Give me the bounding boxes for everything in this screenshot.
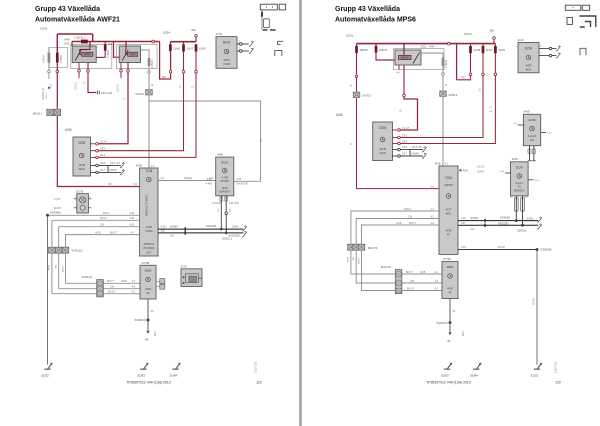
svg-text:AF/B: AF/B	[95, 231, 101, 234]
svg-text:6DA: 6DA	[526, 67, 532, 71]
svg-text:GN: GN	[471, 228, 475, 231]
wire rows into DEM	[66, 282, 141, 284]
svg-text:K2/3S2B: K2/3S2B	[500, 217, 510, 220]
svg-text:W02: W02	[155, 331, 157, 336]
svg-text:K04Ox: K04Ox	[404, 208, 412, 211]
wire TCM 4-10 to splice 53/5008	[458, 249, 537, 251]
svg-text:KE/8: KE/8	[79, 167, 86, 171]
svg-text:AF/B: AF/B	[222, 186, 228, 190]
fuse 11B/06	[56, 53, 59, 63]
relay supply bus A	[72, 41, 160, 43]
svg-text:BN: BN	[56, 265, 58, 268]
relay K2 contact output down to CEM	[127, 63, 129, 70]
svg-text:BCM: BCM	[223, 41, 230, 45]
svg-text:120: 120	[555, 380, 561, 384]
ground 31/32	[44, 364, 51, 369]
svg-text:C5-3: C5-3	[402, 146, 408, 149]
svg-text:BN/YT: BN/YT	[107, 280, 115, 283]
svg-text:S/C002_R: S/C002_R	[41, 88, 45, 100]
svg-text:B4/31 (: B4/31 (	[33, 112, 42, 116]
module 4/28 TCM AW55/TF-80SC	[140, 168, 158, 256]
svg-text:51537338: 51537338	[555, 361, 558, 373]
CAN junction dots right	[515, 219, 518, 222]
svg-text:2/31: 2/31	[421, 45, 427, 49]
svg-text:BK/GY: BK/GY	[358, 257, 360, 264]
svg-text:4F: 4F	[146, 291, 149, 295]
page divider	[299, 0, 302, 426]
svg-text:B4/C73: B4/C73	[368, 246, 378, 250]
CAN junction dots	[220, 228, 223, 231]
module A/56 CEM	[73, 137, 91, 176]
svg-text:4/46: 4/46	[512, 157, 518, 161]
svg-text:TCM: TCM	[145, 169, 152, 173]
splice 53/4019	[147, 319, 150, 322]
4/46 bottom shielded pair to CAN	[515, 198, 519, 211]
svg-text:53/4019: 53/4019	[437, 321, 448, 325]
svg-text:VS/M: VS/M	[223, 62, 231, 66]
svg-text:ECM: ECM	[525, 47, 532, 51]
svg-text:AF/B: AF/B	[396, 222, 402, 225]
svg-text:15/34: 15/34	[464, 32, 472, 36]
svg-text:6DA/6DU: 6DA/6DU	[219, 190, 230, 194]
svg-text:2/1-D2: 2/1-D2	[477, 166, 485, 169]
wire TCM 4-3 nested right	[362, 225, 440, 244]
relay K2 socket outline	[117, 45, 158, 69]
svg-text:TCM: TCM	[445, 176, 452, 180]
svg-text:WH/BK: WH/BK	[170, 226, 178, 229]
svg-text:BK/GY: BK/GY	[62, 265, 64, 272]
svg-text:RD: RD	[108, 183, 112, 186]
svg-text:17-08: 17-08	[54, 198, 61, 201]
svg-text:1 11B/12 2: 1 11B/12 2	[74, 37, 87, 40]
svg-text:4-19: 4-19	[129, 212, 134, 215]
relay K1 socket outline	[71, 45, 112, 69]
svg-text:GN/WH: GN/WH	[411, 154, 419, 156]
svg-text:A/16: A/16	[462, 169, 468, 173]
svg-text:WH/BK: WH/BK	[471, 217, 479, 220]
connector B4/31 (31) two-gang	[47, 109, 54, 115]
svg-text:54/31(1): 54/31(1)	[72, 249, 83, 253]
svg-text:Automatväxellåda AWF21: Automatväxellåda AWF21	[35, 16, 120, 24]
legend connector strip	[260, 4, 277, 10]
svg-text:B4/C19: B4/C19	[381, 265, 391, 269]
wire 54/313 down to TCM pin 4-1	[148, 96, 150, 168]
svg-text:31/84: 31/84	[169, 374, 177, 378]
svg-text:4/66: 4/66	[217, 153, 223, 157]
svg-text:Grupp 43 Växellåda: Grupp 43 Växellåda	[35, 5, 100, 13]
wire 11A/7 down to CEM row2 right	[482, 53, 484, 73]
connector 54/31(4) stack	[97, 280, 104, 297]
CAN terminators	[242, 226, 247, 231]
svg-text:2/32: 2/32	[64, 41, 70, 45]
svg-text:3/3-5: 3/3-5	[412, 147, 418, 149]
svg-text:30+: 30+	[489, 28, 494, 32]
wire 11A/5 down to CEM row3	[195, 52, 197, 71]
svg-text:CEM: CEM	[78, 141, 85, 145]
fuse 11A/5 right	[494, 44, 496, 46]
wire 15-rail drop to fuse 11B/06	[56, 34, 58, 53]
svg-text:4-CyLD: 4-CyLD	[528, 135, 537, 138]
module 4/16 ECM right	[518, 43, 539, 73]
svg-text:C/B: C/B	[408, 215, 412, 218]
svg-text:53/5008: 53/5008	[541, 248, 552, 252]
svg-text:C1-A7: C1-A7	[402, 127, 410, 130]
svg-text:51537338: 51537338	[255, 361, 258, 373]
TCM right row to ECM 4/66	[158, 180, 216, 182]
svg-text:11A/5: 11A/5	[498, 48, 505, 52]
svg-text:C1-A7: C1-A7	[100, 141, 108, 144]
connector 54/313 (3M)	[146, 90, 153, 95]
svg-text:K2/3C2B: K2/3C2B	[206, 225, 216, 228]
svg-text:4-4xB: 4-4xB	[206, 184, 212, 186]
svg-text:2/31: 2/31	[108, 42, 114, 46]
relay K2 coil output stub	[120, 63, 122, 70]
splice 53/4019 right	[449, 321, 452, 324]
svg-text:6/179: 6/179	[76, 189, 84, 193]
svg-text:11A/6: 11A/6	[173, 46, 180, 50]
svg-text:BK/GY: BK/GY	[407, 287, 415, 290]
gray feed to fuse 11B/39 right	[421, 53, 443, 58]
svg-text:C5-2: C5-2	[100, 148, 106, 151]
CEM aux row 2	[98, 171, 121, 173]
solenoid 6/78	[181, 269, 202, 287]
svg-text:53/3S21: 53/3S21	[517, 229, 527, 233]
svg-text:11A/7: 11A/7	[486, 48, 493, 52]
svg-text:54/313: 54/313	[135, 92, 144, 96]
wire DEM ground drop	[147, 299, 149, 319]
legend rounded box	[264, 19, 270, 28]
svg-text:C/B: C/B	[410, 280, 414, 283]
svg-text:C/B: C/B	[110, 286, 114, 289]
svg-text:CEM: CEM	[379, 126, 386, 130]
wire B4/31 down to TCM row	[57, 116, 139, 187]
module 4/65 ECM aux	[523, 114, 540, 145]
svg-text:C5-3: C5-3	[100, 162, 106, 165]
svg-text:2-34 (C3): 2-34 (C3)	[212, 203, 222, 205]
svg-text:HS/2S2B1: HS/2S2B1	[498, 223, 509, 225]
fuse 11B/24 right	[375, 44, 377, 46]
relay socket outline right	[394, 49, 445, 70]
svg-text:A/56: A/56	[65, 128, 72, 132]
svg-text:31/32: 31/32	[41, 374, 49, 378]
wire 53/5006 down to ground 31/32	[47, 217, 49, 365]
legend connector strip right	[565, 5, 581, 10]
relay K1	[72, 46, 96, 63]
inline connector on bus A	[152, 40, 155, 43]
svg-text:GN/4x: GN/4x	[232, 227, 239, 229]
svg-text:4/78: 4/78	[216, 32, 222, 36]
relay K1 coil output stub	[78, 63, 80, 70]
svg-text:AF/B: AF/B	[145, 287, 151, 291]
svg-text:3/3-5: 3/3-5	[110, 163, 116, 165]
4/46 side stubs	[505, 172, 511, 174]
wire bus T-drop to 11A/8 U-turn	[456, 44, 458, 80]
wire branch to ECM frame	[149, 101, 261, 181]
svg-text:AF/B: AF/B	[420, 271, 426, 274]
splice 53/5008	[536, 248, 539, 251]
legend small box	[279, 4, 285, 10]
svg-text:C5-2: C5-2	[402, 134, 408, 137]
module A/56 CEM right	[373, 122, 393, 161]
svg-text:6DR/6DU: 6DR/6DU	[514, 189, 525, 192]
svg-text:4/65: 4/65	[524, 110, 530, 114]
svg-text:GN: GN	[170, 234, 174, 237]
svg-text:11A/5: 11A/5	[199, 46, 206, 50]
ground 31/84	[172, 364, 179, 369]
CEM right aux row 1	[400, 149, 423, 151]
svg-text:BN/YT: BN/YT	[409, 222, 417, 225]
gray feed to fuse 11B/39	[141, 50, 150, 58]
module 4/46 ECM	[511, 162, 529, 196]
svg-text:GN/GR: GN/GR	[497, 246, 505, 249]
wire 11A/7 down to CEM row2	[183, 52, 185, 71]
svg-text:11A/7: 11A/7	[186, 46, 193, 50]
fuse 11B/12 (inline)	[81, 40, 88, 44]
wire 53/5006 to TCM	[49, 214, 140, 216]
svg-text:46: 46	[447, 339, 451, 343]
CAN bus high right	[458, 220, 538, 222]
svg-text:VH4: VH4	[429, 45, 435, 49]
svg-text:3-B: 3-B	[161, 230, 165, 233]
svg-text:3/T08: 3/T08	[142, 261, 150, 265]
svg-text:(TF-80SC): (TF-80SC)	[143, 247, 155, 250]
ECM right pin rows	[539, 48, 549, 50]
svg-text:31/84: 31/84	[470, 374, 478, 378]
CAN inline marks right	[484, 219, 486, 227]
legend bracket lines	[261, 10, 263, 29]
svg-text:C5-7: C5-7	[100, 169, 106, 172]
module 3/T36 DEM right	[442, 262, 458, 299]
module 4/66 ECM	[216, 157, 234, 196]
svg-text:4-13: 4-13	[129, 224, 134, 227]
location bracket icon b	[275, 50, 282, 56]
splice 53/5006	[46, 214, 49, 217]
svg-text:ECM: ECM	[516, 166, 523, 170]
fuse 11A/7 right	[482, 44, 484, 46]
wire 11B/06 down to B4/31	[56, 73, 58, 109]
svg-text:15/31: 15/31	[40, 27, 48, 31]
wire DEM ground drop right	[449, 299, 451, 322]
svg-text:5A/313: 5A/313	[362, 94, 371, 98]
svg-text:B:4-B (C4): B:4-B (C4)	[237, 183, 248, 186]
CAN bus high	[158, 228, 243, 230]
svg-text:4-21: 4-21	[207, 178, 212, 181]
connector B4/C73 3-gang right	[348, 244, 355, 250]
svg-text:VC/8a: VC/8a	[145, 229, 153, 233]
svg-text:4-16: 4-16	[547, 132, 552, 134]
svg-text:4-CyLT: 4-CyLT	[515, 182, 523, 185]
svg-text:6/27: 6/27	[146, 250, 152, 254]
svg-text:TP39297012 V40 (13w) 2013: TP39297012 V40 (13w) 2013	[126, 381, 170, 385]
svg-text:11B/26: 11B/26	[359, 48, 368, 52]
svg-text:DEM: DEM	[447, 265, 454, 269]
module 4/28 TCM MPS6	[439, 166, 458, 255]
svg-text:15/31: 15/31	[346, 34, 354, 38]
relay contact output right -> CEM	[403, 65, 405, 94]
ground 31/82	[140, 364, 147, 369]
svg-text:+15/C: +15/C	[51, 83, 53, 90]
CEM aux row 1	[98, 164, 121, 166]
wire TCM 4-13 nested	[59, 227, 140, 289]
svg-text:A/56: A/56	[336, 113, 343, 117]
svg-text:4-16: 4-16	[461, 217, 466, 220]
svg-text:11B/24: 11B/24	[106, 49, 110, 58]
svg-text:4F: 4F	[448, 291, 451, 295]
svg-text:15/2-31: 15/2-31	[76, 81, 78, 90]
wire 53/5008 down to ground	[536, 251, 538, 365]
svg-text:4T/4G0: 4T/4G0	[220, 179, 229, 183]
relay K2 top pin	[125, 42, 127, 47]
wire 54/313 down to TCM top pin	[442, 97, 444, 166]
svg-text:KE/8: KE/8	[380, 151, 387, 155]
6/179 pin stubs	[74, 198, 77, 200]
connector on 11B/35 output	[48, 70, 51, 73]
location bracket icon right	[580, 48, 586, 55]
reference arrow A/16	[459, 169, 462, 172]
CAN inline marks	[184, 227, 186, 234]
svg-text:AF/B: AF/B	[446, 228, 452, 232]
svg-text:C5-1: C5-1	[100, 154, 106, 157]
svg-text:15/3A: 15/3A	[163, 31, 171, 35]
svg-text:4-1: 4-1	[151, 165, 155, 168]
svg-text:C5-7: C5-7	[402, 153, 408, 156]
svg-text:53/4019: 53/4019	[135, 318, 146, 322]
ground 31/84	[473, 364, 480, 369]
CEM right aux row 2	[400, 155, 423, 157]
wire bus A to relay K2 coil	[114, 42, 120, 58]
svg-text:4/GBx: 4/GBx	[527, 218, 534, 220]
terminal S/C002_R stub	[48, 73, 50, 79]
svg-text:TP39297012 V40 (13w) 2013: TP39297012 V40 (13w) 2013	[426, 381, 470, 385]
CAN bus low	[158, 232, 243, 234]
wire rail down to DEM row3	[51, 220, 53, 293]
wire 5A/313 down to TCM B+ pin	[357, 98, 440, 189]
svg-text:14/0.5: 14/0.5	[46, 92, 48, 99]
fuse 11B/26 right	[356, 44, 358, 46]
svg-text:BN/YT: BN/YT	[110, 231, 118, 234]
svg-text:4/28: 4/28	[136, 163, 142, 167]
svg-text:GN/WH: GN/WH	[109, 170, 117, 172]
svg-text:119: 119	[256, 380, 262, 384]
svg-text:11B/35: 11B/35	[42, 54, 46, 63]
wire TCM 4-15 row	[52, 219, 140, 221]
svg-text:11B/39: 11B/39	[150, 59, 154, 68]
svg-text:4-15: 4-15	[129, 217, 134, 220]
legend dashes	[263, 29, 276, 31]
svg-text:4-CM: 4-CM	[222, 176, 228, 180]
fuse 11A/7	[183, 42, 185, 45]
svg-text:4-10: 4-10	[500, 171, 505, 173]
wires 3-gang down to DEM rows right	[351, 250, 442, 274]
svg-text:BN: BN	[353, 257, 355, 260]
svg-text:AF/B: AF/B	[447, 287, 453, 291]
svg-text:4-4/4 (C3): 4-4/4 (C3)	[101, 91, 113, 95]
DEM right stubs	[156, 280, 160, 282]
ECM 4/66 bottom stubs	[220, 197, 223, 201]
svg-text:MPS6: MPS6	[444, 183, 453, 187]
svg-text:ECM: ECM	[529, 118, 536, 122]
wire TCM 4-3 nested	[66, 235, 140, 284]
wire 11A/6 output U-turn to bus A	[170, 51, 172, 70]
relay top pin right	[403, 44, 405, 50]
svg-text:WH: WH	[230, 208, 232, 212]
svg-text:Automatväxellåda MPS6: Automatväxellåda MPS6	[335, 16, 416, 24]
connector 54/313 right	[440, 91, 447, 96]
svg-text:15/2-32: 15/2-32	[118, 83, 120, 92]
CEM pin circles	[91, 143, 96, 145]
supply bus right page	[357, 43, 496, 45]
fuse 11B/35 (gray)	[48, 47, 50, 52]
svg-text:C/B: C/B	[100, 224, 104, 227]
svg-text:BN/YT: BN/YT	[406, 271, 414, 274]
relay K1 top pins	[71, 42, 73, 47]
svg-text:RD: RD	[163, 77, 167, 79]
svg-text:4-10: 4-10	[461, 246, 466, 249]
4/65 bottom stubs	[528, 149, 531, 153]
fuse 11B/24 with feed	[104, 42, 106, 45]
pump 6/179	[77, 194, 89, 213]
wire TCM 4-7 nested right	[351, 211, 439, 244]
svg-text:DEM: DEM	[145, 269, 152, 273]
4/65 side stubs	[518, 124, 524, 126]
ground 31/32	[534, 364, 541, 369]
svg-text:GN: GN	[218, 208, 220, 212]
svg-text:BN/36: BN/36	[533, 298, 536, 305]
svg-text:(2/4G): (2/4G)	[477, 171, 484, 174]
svg-text:BK/GY: BK/GY	[100, 217, 108, 220]
svg-text:BK/GY: BK/GY	[108, 291, 116, 294]
legend small box right	[582, 5, 589, 10]
svg-text:AF/B: AF/B	[48, 265, 51, 270]
relay K2	[119, 46, 140, 63]
fuse 11A/5	[195, 44, 198, 51]
relay coil output stub right	[398, 65, 400, 70]
fuse 11B/39 right	[442, 58, 445, 66]
connector 5A/313	[353, 92, 360, 97]
relay K1 contact output to 4/4(C3)	[87, 63, 89, 70]
wire B+ top run	[57, 33, 92, 35]
fuse 11A/6	[169, 42, 171, 45]
CEM right pin circles	[393, 129, 398, 131]
svg-text:4/28: 4/28	[435, 161, 441, 165]
svg-text:31/32: 31/32	[531, 374, 539, 378]
svg-text:31/82: 31/82	[137, 374, 145, 378]
svg-text:54/31(4): 54/31(4)	[82, 275, 92, 279]
legend maze icon	[579, 16, 595, 27]
svg-text:6/78: 6/78	[181, 264, 187, 268]
svg-text:3/T36: 3/T36	[443, 257, 451, 261]
BCM pin rows	[237, 43, 249, 45]
wire 11A/5 down to CEM row3 right	[494, 53, 496, 73]
svg-text:11A/8: 11A/8	[473, 48, 480, 52]
svg-text:AW55-51: AW55-51	[143, 242, 154, 246]
svg-text:4-16: 4-16	[161, 226, 166, 229]
relay K (right page)	[395, 50, 421, 65]
svg-text:2-54 (C3): 2-54 (C3)	[229, 203, 239, 205]
svg-text:6DU: 6DU	[446, 211, 451, 215]
svg-text:30+: 30+	[191, 28, 196, 32]
svg-text:11B/24: 11B/24	[379, 48, 388, 52]
inline connector on bus	[448, 42, 451, 45]
svg-text:AF/B: AF/B	[121, 280, 127, 283]
svg-text:6x6: 6x6	[530, 139, 535, 142]
svg-text:4-16: 4-16	[237, 178, 242, 181]
svg-text:4C/P: 4C/P	[446, 207, 452, 211]
module 3/T08 DEM	[140, 265, 156, 299]
svg-text:AW55-51 (TF-80SC): AW55-51 (TF-80SC)	[146, 194, 149, 216]
svg-text:ECM: ECM	[221, 161, 228, 165]
svg-text:3-B: 3-B	[461, 222, 465, 225]
